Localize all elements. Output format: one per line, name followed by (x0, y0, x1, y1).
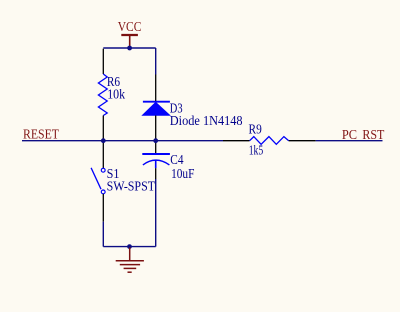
svg-text:10k: 10k (107, 86, 125, 101)
wire RESET horizontal (22, 140, 223, 142)
power symbol VCC (121, 35, 138, 48)
wire PC RST (316, 140, 383, 142)
svg-text:Diode 1N4148: Diode 1N4148 (170, 113, 243, 128)
svg-text:SW-SPST: SW-SPST (107, 179, 155, 194)
wire top rail (103, 47, 155, 49)
node ground junction (127, 244, 132, 249)
svg-text:R9: R9 (249, 122, 263, 137)
pin D3.anode / C4.1 (155, 116, 157, 155)
resistor R9 (250, 137, 289, 145)
pin C4.2 (155, 168, 157, 179)
pin R6.2 / S1.1 (102, 116, 104, 169)
ground (116, 248, 144, 273)
wire bottom rail (103, 246, 155, 248)
svg-text:VCC: VCC (118, 19, 142, 34)
pin R6.1 (102, 49, 104, 74)
capacitor C4 (142, 154, 170, 168)
pin R9.1 (223, 140, 250, 142)
node VCC junction (127, 46, 132, 51)
wire right vertical bottom (155, 179, 157, 247)
wire right vertical top (155, 48, 157, 75)
wire left vertical bottom (102, 222, 104, 247)
pin D3.cathode (155, 75, 157, 102)
svg-text:RESET: RESET (23, 127, 60, 142)
resistor R6 (98, 74, 107, 116)
svg-text:C4: C4 (170, 152, 183, 167)
pin R9.2 (289, 140, 316, 142)
svg-text:RST: RST (362, 127, 385, 142)
svg-text:1k5: 1k5 (249, 143, 264, 158)
node RESET/right rail junction (153, 138, 158, 143)
pin S1.2 (102, 194, 104, 222)
svg-text:10uF: 10uF (171, 166, 194, 181)
switch S1 (91, 168, 105, 194)
node RESET/left rail junction (101, 138, 106, 143)
diode D3 (142, 102, 170, 116)
svg-text:PC: PC (342, 127, 357, 142)
